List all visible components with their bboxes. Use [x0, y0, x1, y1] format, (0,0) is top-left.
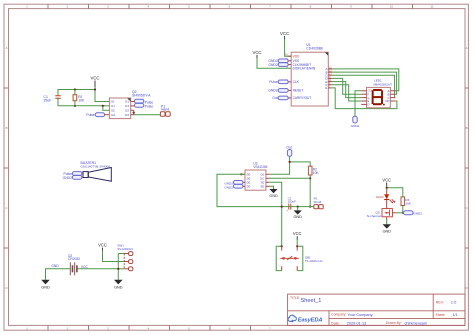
svg-text:SB1: SB1	[305, 256, 311, 260]
svg-text:D: D	[367, 103, 369, 107]
svg-text:1/1: 1/1	[453, 313, 458, 317]
svg-text:GND2: GND2	[224, 186, 233, 190]
svg-text:GND2: GND2	[351, 124, 360, 128]
svg-text:TITLE:: TITLE:	[290, 296, 300, 300]
svg-text:A: A	[466, 46, 468, 50]
svg-text:SI4905DY-A: SI4905DY-A	[132, 94, 151, 98]
svg-text:+: +	[286, 209, 288, 213]
svg-text:N-channel: N-channel	[367, 214, 381, 218]
svg-text:D1: D1	[125, 104, 129, 108]
svg-text:SMA420561A/7: SMA420561A/7	[373, 82, 392, 86]
svg-text:D2: D2	[125, 109, 129, 113]
svg-text:LED1: LED1	[374, 79, 382, 83]
svg-text:DISPLAY/EN/IN: DISPLAY/EN/IN	[293, 67, 316, 71]
svg-text:VDD: VDD	[293, 54, 300, 58]
svg-text:DP: DP	[386, 99, 390, 103]
svg-text:10: 10	[390, 5, 394, 9]
svg-text:2020-01-13: 2020-01-13	[347, 322, 366, 326]
svg-text:GSC1407YB-3V4000: GSC1407YB-3V4000	[81, 165, 111, 169]
svg-text:EasyEDA: EasyEDA	[298, 317, 323, 323]
svg-text:REV:: REV:	[436, 301, 444, 305]
svg-text:Date:: Date:	[331, 321, 339, 325]
svg-text:Pulse: Pulse	[269, 80, 277, 84]
svg-text:VCC: VCC	[252, 50, 261, 55]
svg-text:1.0: 1.0	[451, 300, 457, 305]
svg-text:GND: GND	[41, 286, 50, 290]
svg-text:VCC: VCC	[280, 31, 289, 36]
svg-text:Sheet:: Sheet:	[436, 313, 446, 317]
svg-text:GND: GND	[114, 286, 123, 290]
svg-text:B: B	[466, 126, 468, 130]
svg-text:VCC: VCC	[81, 265, 89, 269]
svg-text:S2: S2	[111, 109, 115, 113]
svg-text:GND: GND	[293, 215, 302, 219]
svg-text:chirkmensam: chirkmensam	[405, 322, 428, 326]
svg-text:CD4026BE: CD4026BE	[306, 46, 324, 50]
svg-text:D2: D2	[125, 113, 129, 117]
svg-text:G2: G2	[111, 113, 115, 117]
svg-text:S1: S1	[111, 100, 115, 104]
svg-text:RESET: RESET	[293, 89, 304, 93]
svg-text:GND2: GND2	[268, 89, 277, 93]
svg-text:B: B	[5, 126, 7, 130]
svg-text:10K: 10K	[313, 171, 320, 175]
svg-text:VS4110M: VS4110M	[253, 165, 267, 169]
svg-text:E0: E0	[261, 184, 265, 188]
svg-text:GND2: GND2	[268, 63, 277, 67]
svg-text:Company:: Company:	[331, 313, 346, 317]
svg-text:GND: GND	[51, 264, 59, 268]
svg-text:CLK: CLK	[293, 80, 300, 84]
svg-text:GND2: GND2	[413, 212, 422, 216]
svg-text:D1: D1	[125, 100, 129, 104]
svg-text:Hand: Hand	[161, 108, 169, 112]
svg-text:10K: 10K	[405, 201, 411, 205]
svg-text:Pulse: Pulse	[145, 105, 154, 109]
svg-text:TS-1102S-C-R: TS-1102S-C-R	[305, 259, 323, 263]
svg-text:GND2: GND2	[63, 176, 73, 180]
svg-text:GND: GND	[269, 194, 278, 198]
svg-text:Pulse: Pulse	[86, 113, 95, 117]
svg-text:Drawn By:: Drawn By:	[386, 321, 402, 325]
svg-text:25uF: 25uF	[44, 98, 52, 102]
svg-text:A: A	[5, 46, 7, 50]
svg-text:VCC: VCC	[98, 243, 107, 248]
svg-text:Sheet_1: Sheet_1	[301, 298, 322, 304]
svg-text:Dmall: Dmall	[314, 200, 322, 204]
svg-text:Out: Out	[272, 96, 277, 100]
svg-text:CARRY/OUT: CARRY/OUT	[293, 96, 312, 100]
svg-text:VCC: VCC	[293, 231, 302, 236]
svg-text:VCC: VCC	[90, 76, 99, 81]
svg-text:100uF: 100uF	[288, 200, 296, 204]
svg-text:D0: D0	[247, 184, 251, 188]
svg-text:Your Company: Your Company	[348, 313, 373, 317]
svg-text:LED2: LED2	[376, 195, 384, 199]
svg-text:VCC: VCC	[382, 178, 391, 183]
svg-text:CR2032: CR2032	[68, 257, 80, 261]
svg-text:GND: GND	[383, 229, 392, 233]
svg-text:11: 11	[430, 5, 433, 9]
svg-text:10K: 10K	[78, 99, 85, 103]
svg-text:SS-12D10L3: SS-12D10L3	[117, 247, 133, 251]
svg-text:G1: G1	[111, 104, 115, 108]
